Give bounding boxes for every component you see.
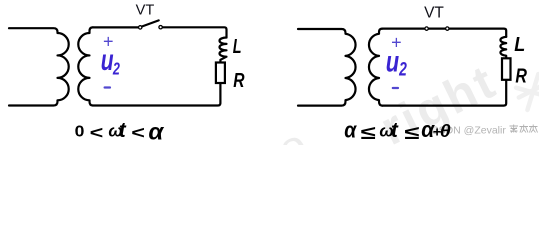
- switch contact circles: [139, 26, 142, 29]
- svg-text:VT: VT: [136, 2, 155, 18]
- switch contact circles (closed): [425, 27, 428, 30]
- svg-text:α: α: [148, 119, 164, 144]
- transformer T1 primary winding: [9, 28, 69, 105]
- watermark CJK chars simulated: [510, 125, 538, 133]
- caption right: a <= wt <= a+th: [344, 118, 451, 144]
- resistor R (right): [502, 58, 511, 80]
- svg-text:α: α: [344, 118, 357, 142]
- label minus (right): [393, 87, 398, 89]
- transformer T1 secondary winding: [78, 27, 93, 105]
- switch VT blade (open): [142, 20, 159, 26]
- svg-text:<: <: [131, 123, 145, 143]
- svg-text:VT: VT: [424, 5, 444, 22]
- transformer T2 secondary winding: [369, 29, 382, 106]
- wire switch to top-right corner, down to inductor: [162, 27, 226, 37]
- resistor R (left): [216, 63, 225, 84]
- svg-text:0: 0: [75, 122, 85, 140]
- caption left: 0 < wt < a: [75, 119, 165, 145]
- svg-text:R: R: [233, 69, 244, 91]
- svg-text:t: t: [119, 119, 127, 143]
- svg-text:≤: ≤: [404, 123, 419, 144]
- wire resistor to bottom corner and bottom wire: [93, 83, 221, 106]
- label minus (left): [105, 86, 110, 88]
- svg-text:t: t: [391, 119, 399, 143]
- inductor L (right): [500, 37, 506, 59]
- wire through closed switch to corner: [382, 29, 506, 37]
- wire secondary top to switch: [93, 26, 139, 28]
- svg-text:R: R: [515, 65, 527, 87]
- svg-text:≤: ≤: [361, 123, 376, 144]
- svg-text:θ: θ: [440, 122, 452, 142]
- svg-text:<: <: [90, 123, 104, 143]
- inductor L (left): [219, 38, 226, 63]
- svg-text:L: L: [233, 35, 242, 58]
- watermark diagonal word "right": [270, 55, 539, 175]
- transformer T2 primary winding: [298, 29, 356, 106]
- svg-text:L: L: [514, 34, 525, 56]
- watermark glyph top-right (CJK-like strokes): [513, 73, 539, 112]
- wire resistor to bottom corner and bottom wire: [382, 80, 506, 106]
